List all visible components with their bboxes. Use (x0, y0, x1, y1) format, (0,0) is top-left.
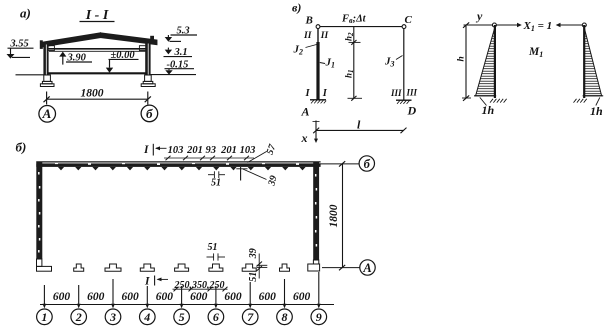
svg-text:600: 600 (293, 291, 311, 303)
svg-text:I - I: I - I (85, 8, 109, 23)
svg-text:x: x (301, 131, 308, 145)
svg-text:6: 6 (213, 310, 219, 324)
ground line right (151, 74, 197, 76)
hinge circle at C (402, 25, 406, 29)
x axis (315, 121, 317, 140)
grid ticks (43, 285, 45, 307)
right moment triangle (584, 28, 601, 96)
left hinge circle (492, 23, 496, 27)
tick slashes under dims (164, 157, 254, 159)
svg-text:1h: 1h (590, 104, 603, 118)
svg-text:103: 103 (240, 145, 256, 156)
svg-text:8: 8 (282, 310, 288, 324)
right support hatch (574, 99, 587, 103)
top wall (36, 161, 320, 163)
svg-text:I: I (322, 88, 328, 99)
left column bar (494, 25, 496, 98)
svg-text:51: 51 (211, 178, 221, 189)
label 39 rotated with leader (243, 169, 267, 180)
support at A (310, 99, 326, 101)
600 labels (53, 291, 311, 303)
left pedestal (44, 75, 51, 81)
grid7 column detail 51x39 (258, 254, 260, 279)
left support hatch (490, 99, 507, 103)
right 1h label with leader (596, 97, 600, 105)
svg-text:А: А (362, 261, 371, 275)
roof slab left slope (41, 33, 101, 47)
span dimension l (316, 129, 404, 131)
svg-text:X1 = 1: X1 = 1 (523, 20, 553, 33)
svg-text:7: 7 (247, 310, 254, 324)
label 57 rotated with leader (248, 152, 267, 163)
svg-text:39: 39 (248, 248, 259, 259)
drop line from wall (240, 167, 242, 181)
left column upper thin part (317, 29, 319, 43)
arrow on right column pointing left (561, 24, 583, 26)
wall texture gaps (55, 162, 299, 165)
wall tabs (fachwerk columns) (58, 167, 306, 171)
svg-text:93: 93 (206, 145, 217, 156)
svg-text:51: 51 (208, 242, 218, 253)
svg-text:103: 103 (168, 145, 184, 156)
svg-text:A: A (301, 105, 310, 119)
svg-text:600: 600 (259, 291, 277, 303)
top beam BC (320, 26, 402, 28)
support at D (396, 99, 412, 101)
plan columns grid2-8 (74, 264, 290, 271)
ceiling beam (47, 48, 150, 50)
grid circle A (plan) (360, 260, 375, 275)
right hinge circle (582, 23, 586, 27)
left column (43, 44, 48, 75)
h dimension line (465, 25, 467, 98)
roof slab right slope (101, 33, 158, 45)
top detail dimensions 103 201 93 201 103 (168, 145, 256, 156)
svg-text:II: II (320, 31, 329, 41)
right column (145, 43, 150, 75)
force arrow X1=1 right (497, 24, 517, 26)
left column lower thick part (316, 42, 319, 100)
left capital block (47, 46, 55, 51)
svg-text:51: 51 (248, 272, 259, 282)
svg-text:б: б (146, 106, 153, 121)
bottom tick of middle line (348, 97, 363, 99)
grid circle B (section) (141, 105, 158, 122)
svg-text:600: 600 (53, 291, 71, 303)
svg-text:б: б (364, 157, 371, 171)
left wall foot (37, 259, 42, 266)
right wall (313, 162, 319, 260)
svg-text:I: I (143, 144, 149, 156)
svg-text:б): б) (16, 140, 27, 155)
svg-text:201: 201 (220, 145, 237, 156)
svg-text:I: I (144, 276, 150, 288)
right capital block (139, 46, 147, 51)
svg-text:1h: 1h (482, 103, 495, 117)
middle height line (353, 27, 355, 98)
left parapet stub (40, 40, 43, 49)
svg-text:II: II (303, 31, 312, 41)
right column bar (583, 25, 585, 98)
svg-text:в): в) (292, 1, 301, 15)
svg-text:h: h (457, 56, 467, 61)
svg-text:B: B (305, 15, 313, 27)
left wall (36, 162, 42, 259)
hinge circle at B (316, 25, 320, 29)
grid circle B (plan) (359, 156, 374, 171)
svg-text:III: III (406, 87, 418, 97)
left 1h label with leader (480, 97, 487, 105)
svg-text:600: 600 (224, 291, 242, 303)
svg-text:III: III (390, 88, 402, 98)
right parapet stub (150, 36, 154, 44)
svg-text:D: D (407, 104, 417, 118)
svg-text:600: 600 (121, 291, 139, 303)
right pedestal (145, 75, 152, 81)
svg-text:1: 1 (41, 310, 47, 324)
svg-text:3: 3 (109, 310, 116, 324)
svg-text:Fв;Δt: Fв;Δt (341, 14, 367, 26)
svg-text:1800: 1800 (328, 204, 340, 227)
svg-text:600: 600 (87, 291, 105, 303)
left moment triangle (476, 28, 495, 96)
top extension line (464, 24, 493, 26)
1800 vertical dimension (342, 164, 344, 268)
svg-text:2: 2 (75, 310, 82, 324)
right footing (143, 81, 153, 83)
svg-text:600: 600 (156, 291, 174, 303)
right wall foot (313, 260, 318, 264)
svg-text:а): а) (20, 6, 31, 21)
left footing (42, 81, 52, 83)
h2 tick (349, 41, 361, 43)
grid circles 1-9 (43, 304, 321, 309)
svg-text:А: А (42, 106, 52, 121)
svg-text:y: y (475, 9, 483, 23)
ground line left (16, 74, 45, 76)
svg-text:1800: 1800 (81, 88, 104, 100)
svg-text:5: 5 (179, 310, 185, 324)
level mark 3.90 with up arrow (62, 56, 64, 64)
svg-text:600: 600 (190, 291, 208, 303)
svg-text:9: 9 (316, 310, 322, 324)
dimension 1800 (section) (46, 92, 48, 105)
right column CD (403, 29, 405, 101)
bottom dimension line (40, 304, 334, 306)
floor line (48, 72, 148, 74)
svg-text:201: 201 (186, 145, 203, 156)
svg-text:4: 4 (143, 310, 150, 324)
level mark 3.1 (167, 48, 169, 50)
grid circle A (section) (39, 106, 56, 123)
svg-text:C: C (405, 14, 413, 26)
